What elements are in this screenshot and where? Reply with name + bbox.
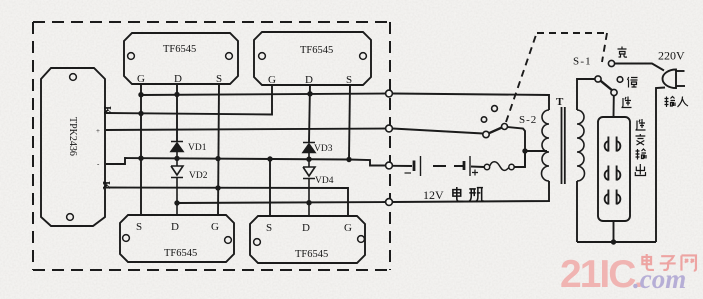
wire row C : U1 pin2 to connector 2 (106, 129, 386, 131)
label char ni (invert) (622, 97, 632, 108)
svg-text:T: T (556, 96, 564, 108)
wire vertical G1-S3 (140, 84, 142, 215)
junction dot center-tap (522, 148, 527, 153)
svg-text:D: D (171, 221, 179, 233)
MOSFET package Q2 TF6545 (top-right) outline (254, 32, 371, 85)
junction row G at D4 (306, 200, 311, 205)
wire charge contact to plug (615, 64, 664, 71)
diode VD1 (171, 142, 183, 159)
junction row D at VD3-VD4 node (306, 157, 311, 162)
watermark char wang (pink) (681, 255, 696, 270)
label char chong (charge) (618, 47, 628, 58)
battery GB 12V cell 1 negative plate (413, 161, 416, 172)
svg-text:TPK2436: TPK2436 (67, 117, 78, 156)
connector terminal 1 on dashed border (386, 90, 393, 97)
junction row A at D1 (174, 92, 179, 97)
svg-text:D: D (305, 74, 313, 86)
svg-text:+: + (96, 127, 100, 135)
watermark char zi (pink) (660, 256, 676, 270)
Q2 mounting hole right (360, 53, 367, 60)
junction row D at S1-G3 wire (215, 156, 220, 161)
wire bottom bus (577, 241, 656, 243)
wire row 2 right: connector 2 to S-2 common (393, 129, 484, 134)
MOSFET package Q1 TF6545 (top-left) outline (124, 33, 238, 84)
label char bian (636, 134, 646, 145)
U1 mounting hole bottom (67, 214, 74, 221)
wire row K2 : U1 bottom K to G4 (106, 188, 348, 217)
svg-text:VD3: VD3 (314, 144, 333, 154)
diode VD4 (303, 159, 315, 216)
switch S-2 common contact (483, 131, 489, 137)
wire junction to transformer center tap (525, 150, 547, 152)
junction row G at D3 (174, 200, 179, 205)
switch S-1 moving arm (601, 81, 612, 90)
Q2 mounting hole left (259, 53, 266, 60)
wire vertical D2 to VD3 (309, 85, 310, 142)
svg-text:G: G (268, 74, 276, 86)
battery cell 2 positive plate (469, 156, 471, 176)
wire secondary top to S-1 common (577, 79, 595, 110)
battery middle dashes (433, 165, 463, 167)
Q4 mounting hole right (358, 236, 365, 243)
wire secondary bottom down (576, 181, 578, 242)
fuse FU terminal right (509, 164, 514, 169)
connector terminal 2 on dashed border (386, 125, 393, 132)
socket outlet 2 (605, 166, 621, 181)
wire vertical S4 to row D (269, 159, 271, 216)
socket strip outline (598, 117, 630, 221)
transformer T primary winding (542, 110, 549, 181)
wire socket bottom stub (613, 221, 615, 242)
svg-text:.com: .com (633, 264, 686, 294)
wire row G : D3/D4 bus to connector 4 (177, 202, 386, 203)
svg-text:K: K (100, 181, 112, 190)
connector terminal 3 on dashed border (386, 162, 393, 169)
svg-text:VD4: VD4 (315, 176, 334, 186)
battery minus label (405, 172, 412, 174)
socket outlet 1 (605, 137, 621, 152)
label char ni (output column) (636, 119, 646, 130)
watermark char dian (pink) (642, 254, 654, 270)
svg-text:S: S (136, 221, 142, 233)
plug prong top (676, 70, 685, 72)
battery plus label (472, 170, 478, 176)
fuse wavy link (490, 162, 509, 171)
svg-text:VD1: VD1 (188, 143, 207, 153)
wire row A : G1/D1/D2 bus to connector 1 (141, 94, 386, 96)
Q1 mounting hole right (226, 53, 233, 60)
wire row 4 right: connector 4 to transformer primary bottom (393, 181, 550, 202)
wire plug bottom down right side (656, 88, 665, 243)
switch S-2 idle contact a (481, 117, 486, 122)
Q1 mounting hole left (128, 53, 135, 60)
wire vertical S1 to G3 (218, 85, 219, 215)
mains plug body (663, 70, 677, 89)
MOSFET package Q4 TF6545 (bottom-right) outline (250, 216, 365, 263)
plug prong bottom (676, 85, 685, 87)
switch S-2 idle contact b (492, 106, 498, 112)
svg-text:S: S (266, 222, 272, 234)
transformer T secondary winding (577, 110, 585, 181)
Q3 mounting hole left (123, 235, 130, 242)
junction row D at S2 wire (346, 157, 351, 162)
junction row D at G1-S3 wire (138, 156, 143, 161)
U1 mounting hole top (70, 74, 77, 81)
label char ting (stop) (628, 77, 638, 88)
junction row B at G1 wire (138, 111, 143, 116)
diode VD2 (171, 158, 183, 215)
svg-text:TF6545: TF6545 (163, 44, 196, 55)
MOSFET package Q3 TF6545 (bottom-left) outline (120, 215, 234, 262)
battery cell 2 negative plate (463, 161, 466, 170)
fuse FU terminal left (484, 164, 489, 169)
wire battery to fuse (471, 166, 484, 169)
svg-text:VD2: VD2 (189, 171, 208, 181)
wire invert contact down to socket (613, 96, 615, 117)
battery cell 1 positive plate (420, 156, 422, 176)
junction row K2 at S1-G3 wire (215, 185, 220, 190)
wire row 1 right: connector 1 to transformer primary top (393, 94, 550, 111)
wire fuse to center-tap junction (514, 151, 525, 167)
svg-text:G: G (211, 221, 219, 233)
switch S-2 moving arm (489, 128, 502, 134)
label char chu (635, 164, 645, 176)
transformer core (562, 107, 565, 184)
label char ru (input) (678, 97, 689, 108)
svg-text:S: S (346, 74, 352, 86)
switch S-1 contact charge (chong) (608, 60, 614, 66)
svg-text:S-1: S-1 (573, 56, 592, 68)
connector terminal 4 on dashed border (386, 199, 393, 206)
switch S-2 selected contact (502, 124, 508, 130)
svg-text:21IC.: 21IC. (560, 253, 641, 296)
diode VD3 (303, 143, 315, 160)
svg-text:S: S (216, 73, 222, 85)
svg-text:TF6545: TF6545 (300, 45, 333, 56)
svg-text:G: G (344, 222, 352, 234)
battery label char dian (453, 187, 463, 201)
svg-text:220V: 220V (658, 49, 685, 63)
wire row B : K top to G2 (106, 85, 272, 115)
svg-text:TF6545: TF6545 (164, 248, 197, 259)
label char shu (636, 149, 647, 160)
switch S-1 common contact (595, 76, 601, 82)
driver module U1 TPK2436 outline (41, 68, 105, 226)
dashed enclosure box of inverter unit (33, 22, 390, 270)
junction row A at G1 (138, 92, 143, 97)
socket outlet 3 (605, 190, 621, 205)
junction row A at D2 (307, 91, 312, 96)
switch S-1 contact stop (ting) (617, 77, 623, 83)
wire vertical D1 to VD1 (176, 85, 178, 141)
svg-text:12V: 12V (423, 188, 444, 202)
wire vertical S2 to row D (349, 85, 350, 159)
junction dot bottom bus (611, 239, 616, 244)
svg-text:D: D (174, 73, 182, 85)
wire row D : U1 pin3 stepped bus to connector 3 (106, 158, 386, 166)
label char shu (input) (665, 97, 676, 108)
wire S-2 contact to center-tap junction (508, 127, 526, 167)
mechanical linkage dashed S-2 to S-1 (506, 33, 607, 122)
svg-text:TF6545: TF6545 (295, 249, 328, 260)
battery label char ping (469, 188, 484, 202)
switch S-1 contact invert (ni) (611, 89, 617, 95)
svg-text:S-2: S-2 (519, 114, 537, 126)
svg-text:G: G (137, 73, 145, 85)
Q4 mounting hole left (254, 239, 261, 246)
svg-text:D: D (302, 222, 310, 234)
Q3 mounting hole right (225, 237, 232, 244)
junction row D at VD1-VD2 node (174, 156, 179, 161)
wire row 3 right: connector 3 to battery (393, 165, 413, 167)
junction row D at S4 wire (267, 156, 272, 161)
